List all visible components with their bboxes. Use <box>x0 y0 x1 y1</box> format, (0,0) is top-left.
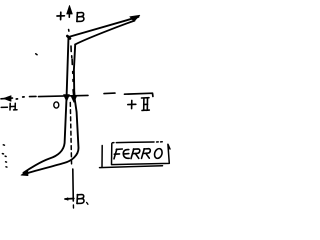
B axis solid lower segment <box>72 169 75 201</box>
lower tail arrowhead <box>21 170 28 175</box>
H axis dash segment <box>30 95 37 97</box>
FERRO label letter O <box>153 148 163 160</box>
FERRO box shadow left line <box>101 146 103 168</box>
H axis dash-dot dots left <box>16 97 24 99</box>
FERRO box shadow bottom line <box>100 166 163 168</box>
label -H <box>1 103 17 110</box>
loop top corner blob <box>67 36 70 39</box>
hysteresis loop upper tail upper line <box>69 17 139 37</box>
H axis left arrowhead <box>1 96 13 102</box>
FERRO label letter F <box>114 149 122 159</box>
label B top <box>77 13 84 22</box>
H axis main segment through origin <box>39 95 89 96</box>
stray dots left edge <box>2 145 7 167</box>
hysteresis loop upper tail lower line <box>75 21 134 45</box>
FERRO box main border <box>112 144 171 165</box>
hysteresis loop right branch with lower-left tail <box>24 44 79 174</box>
FERRO label letter R <box>131 149 140 159</box>
FERRO label letter R <box>142 149 151 159</box>
B axis dot below arrow <box>68 30 70 32</box>
FERRO label letter E <box>123 150 129 159</box>
right axis-crossing arrowhead <box>71 90 77 102</box>
B axis top arrow <box>67 6 73 18</box>
B axis dash-dot above origin <box>71 46 73 81</box>
label B bottom <box>77 195 88 205</box>
hysteresis loop left branch with lower-left tail <box>24 37 69 173</box>
upper tail arrowhead <box>130 15 140 21</box>
H axis right segment with end tick <box>125 93 153 96</box>
label -B minus with arrow tip <box>65 198 74 201</box>
FERRO box top dashed edge <box>112 141 162 144</box>
left axis-crossing arrowhead <box>64 95 70 102</box>
label + of +B <box>57 12 64 19</box>
label O at origin <box>54 102 59 108</box>
stray dot upper left <box>36 53 37 56</box>
label +H <box>128 98 150 111</box>
H axis dash segment right <box>104 92 115 95</box>
B axis bottom end dash <box>72 205 74 208</box>
B axis dashed below origin <box>70 103 71 167</box>
